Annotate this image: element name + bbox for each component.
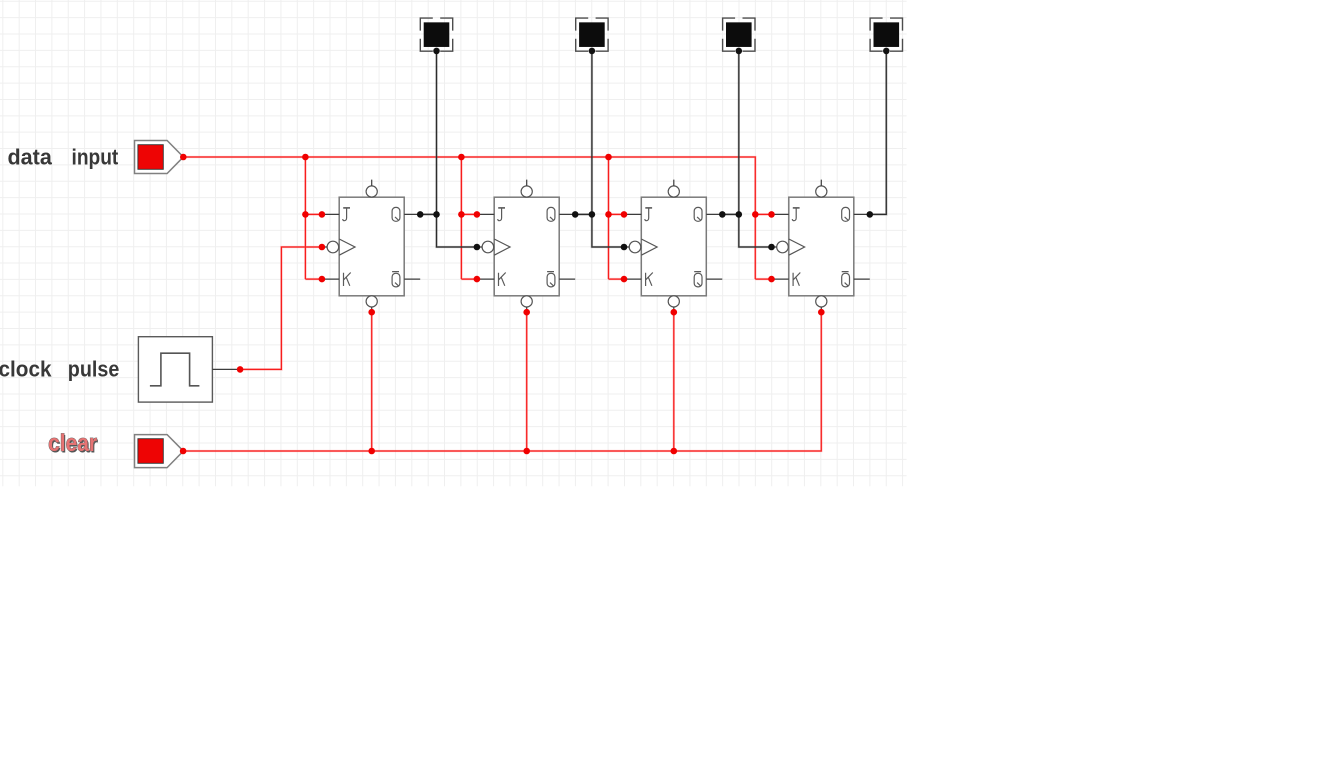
svg-text:data: data <box>8 145 53 170</box>
svg-text:clear: clear <box>48 430 97 457</box>
svg-text:clock: clock <box>0 356 52 381</box>
svg-text:pulse: pulse <box>68 356 120 381</box>
svg-text:input: input <box>72 145 119 170</box>
